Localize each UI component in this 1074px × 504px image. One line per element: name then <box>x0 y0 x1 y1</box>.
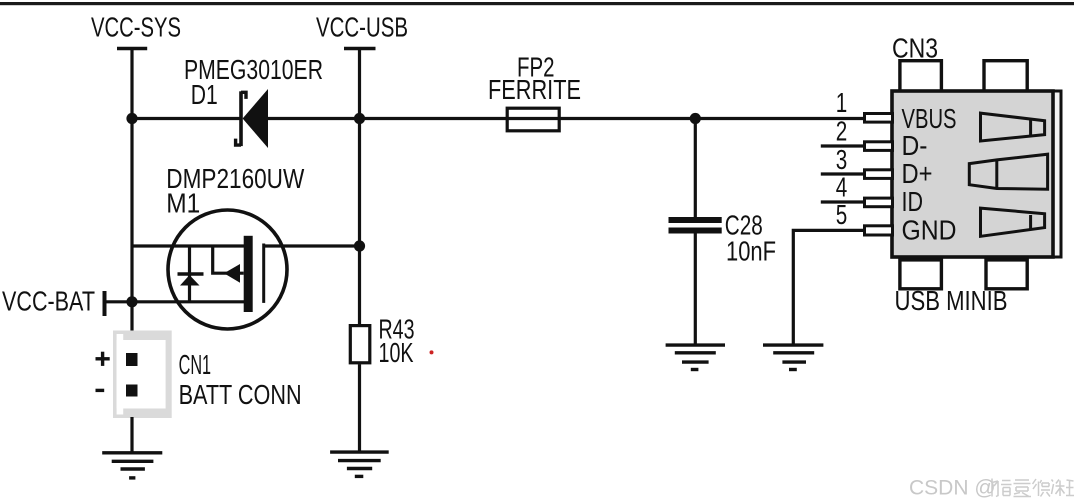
pin box 1 <box>865 114 893 123</box>
svg-text:USB MINIB: USB MINIB <box>895 285 1008 316</box>
ground under CN1 <box>102 453 162 478</box>
junction node at VCC-USB / main wire <box>354 113 365 124</box>
svg-text:4: 4 <box>836 172 848 203</box>
mounting tab bottom-left <box>900 260 942 289</box>
junction node VCC-BAT / CN1 <box>126 296 137 307</box>
pin box 3 <box>865 170 893 179</box>
svg-text:5: 5 <box>836 199 848 230</box>
artifact red dot <box>430 350 434 354</box>
svg-text:10K: 10K <box>379 337 414 368</box>
wire R43 to ground <box>358 364 361 451</box>
wire pin4 stub <box>821 200 865 203</box>
wire mosfet bottom y=301.8 <box>104 300 248 303</box>
wire diode cathode to pin1 <box>266 117 865 120</box>
svg-text:FERRITE: FERRITE <box>488 74 581 105</box>
svg-text:M1: M1 <box>166 188 200 219</box>
ferrite FP2 <box>507 108 559 131</box>
svg-text:BATT CONN: BATT CONN <box>179 379 302 410</box>
svg-text:3: 3 <box>836 144 848 175</box>
wire CN1 to ground <box>130 417 133 453</box>
body <box>892 91 1053 257</box>
pin pad + <box>126 353 138 366</box>
svg-text:CSDN @: CSDN @ <box>909 477 996 500</box>
svg-text:GND: GND <box>902 214 957 245</box>
wire VCC-USB vertical x=359.5 <box>358 49 361 325</box>
svg-text:VCC-BAT: VCC-BAT <box>2 286 95 317</box>
power symbol VCC-USB <box>316 12 408 49</box>
resistor R43 <box>350 326 370 363</box>
contact middle <box>969 154 1047 189</box>
svg-text:CN1: CN1 <box>179 349 212 380</box>
pin pad - <box>126 385 138 397</box>
watermark CSDN <box>909 477 1074 500</box>
mosfet M1 DMP2160UW <box>104 210 360 329</box>
top border line <box>0 2 1074 5</box>
wire pin2 stub <box>821 144 865 147</box>
diode D1 PMEG3010ER (schottky) <box>236 89 268 148</box>
svg-text:10nF: 10nF <box>726 236 776 267</box>
mounting tab top-left <box>900 61 942 92</box>
channel bar <box>244 236 253 312</box>
svg-text:CN3: CN3 <box>892 32 938 63</box>
wire CN1 to node <box>130 302 133 334</box>
connector CN1 housing <box>113 331 172 419</box>
terminal VCC-BAT <box>2 286 105 317</box>
wire gate to VCC-USB net <box>264 244 360 247</box>
pin box 5 <box>865 226 893 235</box>
svg-text:D-: D- <box>902 130 928 161</box>
wire VCC-SYS vertical x=132 <box>130 49 133 303</box>
svg-text:D+: D+ <box>902 158 933 189</box>
body diode branch <box>188 246 191 302</box>
wire GND pin5 to ground <box>793 230 864 344</box>
contact top <box>981 113 1045 141</box>
gate plate <box>262 244 265 303</box>
junction node gate / R43 <box>354 240 365 251</box>
pin box 2 <box>865 142 893 151</box>
capacitor C28 <box>669 119 722 345</box>
junction node at VCC-SYS / main wire <box>126 113 137 124</box>
junction node at C28 tap <box>690 113 701 124</box>
svg-text:D1: D1 <box>191 79 218 110</box>
wire mosfet top (source) y=246 <box>132 244 248 247</box>
svg-text:1: 1 <box>836 87 848 118</box>
shield side strip <box>1050 91 1061 257</box>
wire main horizontal net y=118.5 <box>132 117 241 120</box>
svg-text:2: 2 <box>836 116 848 147</box>
mounting tab top-right <box>984 61 1027 92</box>
contact bottom <box>981 208 1045 236</box>
power symbol VCC-SYS <box>91 12 181 49</box>
wire pin3 stub <box>821 172 865 175</box>
label plus <box>96 352 110 366</box>
connector CN3 USB MINIB <box>865 32 1062 316</box>
ground under C28 <box>666 345 725 369</box>
ground at USB GND <box>763 345 823 369</box>
pin box 4 <box>865 198 893 207</box>
label minus <box>96 389 105 392</box>
svg-text:VCC-SYS: VCC-SYS <box>91 12 181 43</box>
mounting tab bottom-right <box>986 260 1027 289</box>
ground under R43 <box>330 452 389 476</box>
bulk connection with arrow <box>213 246 244 273</box>
svg-text:VCC-USB: VCC-USB <box>316 12 408 43</box>
svg-text:ID: ID <box>902 186 924 217</box>
